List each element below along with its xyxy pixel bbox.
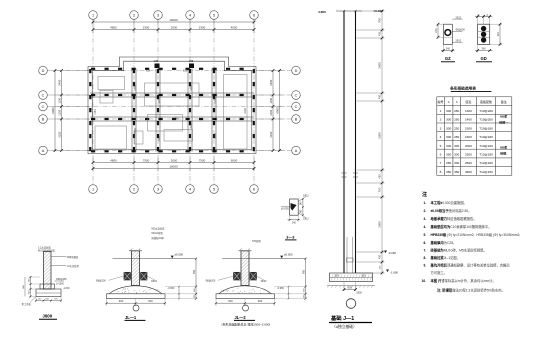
svg-text:7500: 7500: [199, 158, 206, 162]
svg-text:1150: 1150: [269, 97, 273, 103]
svg-text:2: 2: [133, 188, 135, 192]
svg-text:2300: 2300: [143, 25, 150, 29]
svg-text:2Φ12: 2Φ12: [303, 217, 309, 220]
svg-text:基础拉梁JL-1见图。: 基础拉梁JL-1见图。: [430, 255, 461, 260]
svg-text:5: 5: [213, 14, 215, 18]
svg-text:1740: 1740: [173, 118, 179, 121]
svg-text:HPB235级 (Φ) fy=210N/mm2; HRB3: HPB235级 (Φ) fy=210N/mm2; HRB335级 (Φ) fy=…: [431, 232, 521, 237]
svg-text:3600: 3600: [377, 132, 381, 139]
svg-text:底板配筋: 底板配筋: [480, 99, 492, 104]
svg-text:4800: 4800: [110, 25, 117, 29]
svg-text:3Φ12: 3Φ12: [261, 280, 268, 283]
svg-text:3: 3: [440, 126, 442, 130]
svg-text:8.: 8.: [424, 256, 427, 260]
svg-text:1.: 1.: [424, 201, 427, 205]
svg-text:625: 625: [146, 70, 151, 73]
svg-text:2Φ12: 2Φ12: [303, 194, 309, 197]
svg-text:2300: 2300: [134, 128, 137, 134]
svg-text:1Φ5: 1Φ5: [189, 60, 194, 63]
svg-text:GD: GD: [480, 56, 486, 61]
svg-text:编号: 编号: [438, 99, 444, 104]
svg-text:2500: 2500: [465, 161, 472, 165]
svg-text:条形基础选用表: 条形基础选用表: [450, 86, 476, 91]
svg-text:-1.800: -1.800: [390, 270, 398, 274]
svg-text:2400: 2400: [269, 79, 273, 85]
svg-text:7: 7: [440, 161, 442, 165]
svg-text:1: 1: [92, 188, 94, 192]
svg-text:3: 3: [157, 188, 159, 192]
svg-text:6: 6: [253, 14, 255, 18]
svg-text:700: 700: [377, 187, 381, 192]
svg-text:防潮层20厚: 防潮层20厚: [152, 236, 165, 240]
svg-text:300: 300: [446, 109, 451, 113]
svg-text:240: 240: [482, 47, 487, 50]
svg-text:T10@200: T10@200: [479, 118, 493, 122]
svg-text:本图 尺寸除标高以m计外，其余均以mm计。: 本图 尺寸除标高以m计外，其余均以mm计。: [430, 278, 496, 283]
svg-text:350: 350: [446, 161, 451, 165]
svg-text:3600: 3600: [465, 170, 472, 174]
svg-text:450: 450: [378, 254, 381, 259]
svg-text:3Φ12: 3Φ12: [151, 280, 158, 283]
svg-text:砖基础为MU10砖，M5水泥砂浆砌筑。: 砖基础为MU10砖，M5水泥砂浆砌筑。: [430, 248, 487, 253]
svg-text:-0.950: -0.950: [277, 287, 284, 290]
svg-text:240: 240: [435, 28, 438, 33]
svg-text:350: 350: [446, 152, 451, 156]
svg-text:1250: 1250: [269, 109, 273, 115]
svg-text:950: 950: [302, 269, 305, 274]
svg-text:基础砜均为C25。: 基础砜均为C25。: [430, 240, 457, 245]
svg-text:A: A: [295, 149, 298, 153]
svg-text:T10@200: T10@200: [479, 109, 493, 113]
svg-text:（d独立基础）: （d独立基础）: [332, 324, 357, 329]
svg-text:370砖墙: 370砖墙: [252, 239, 261, 243]
svg-text:B: B: [295, 118, 298, 122]
svg-text:300: 300: [446, 118, 451, 122]
svg-text:900: 900: [119, 299, 124, 303]
svg-text:900: 900: [228, 299, 233, 303]
svg-text:J600: J600: [42, 314, 52, 319]
svg-text:4: 4: [189, 188, 191, 192]
svg-text:900: 900: [148, 299, 153, 303]
svg-text:±0.000: ±0.000: [175, 252, 184, 256]
svg-text:250: 250: [454, 126, 459, 130]
svg-text:Φ8@200: Φ8@200: [96, 280, 106, 283]
svg-text:T10@180: T10@180: [479, 126, 493, 130]
svg-text:2: 2: [133, 14, 135, 18]
svg-text:350: 350: [446, 170, 451, 174]
svg-text:地基承载力特征值取勘察报告。: 地基承载力特征值取勘察报告。: [431, 216, 477, 221]
svg-text:砖砌—: 砖砌—: [499, 120, 508, 125]
svg-text:7.: 7.: [424, 249, 427, 253]
svg-text:1400: 1400: [465, 118, 472, 122]
svg-text:1600: 1600: [465, 135, 472, 139]
svg-text:2.: 2.: [424, 209, 427, 213]
svg-text:D: D: [295, 69, 298, 73]
svg-text:2300: 2300: [134, 85, 137, 91]
svg-text:T10@180: T10@180: [479, 135, 493, 139]
svg-text:3: 3: [157, 14, 159, 18]
svg-text:300: 300: [454, 144, 459, 148]
svg-text:底宽: 底宽: [465, 99, 471, 104]
svg-text:300: 300: [446, 135, 451, 139]
svg-text:(条形基础配筋见表 埋深2000~2.600): (条形基础配筋见表 埋深2000~2.600): [222, 321, 271, 326]
svg-text:-1.800: -1.800: [63, 288, 70, 290]
svg-text:A: A: [42, 149, 45, 153]
svg-text:2400: 2400: [190, 123, 193, 129]
svg-text:2Φ12: 2Φ12: [456, 40, 462, 43]
svg-text:3—3: 3—3: [286, 235, 294, 239]
svg-text:M5浆: M5浆: [500, 114, 507, 119]
svg-text:4800: 4800: [110, 158, 117, 162]
svg-text:5: 5: [213, 188, 215, 192]
svg-text:250: 250: [454, 109, 459, 113]
svg-text:200: 200: [361, 275, 366, 278]
svg-text:9.: 9.: [424, 264, 427, 268]
svg-text:L=1000: L=1000: [56, 284, 64, 286]
svg-text:4: 4: [189, 14, 191, 18]
svg-text:6: 6: [440, 152, 442, 156]
svg-text:D: D: [42, 69, 45, 73]
svg-text:Φ6@200: Φ6@200: [456, 29, 466, 32]
svg-text:2400: 2400: [244, 108, 247, 114]
svg-text:3600: 3600: [377, 62, 381, 69]
svg-text:6000: 6000: [231, 158, 238, 162]
svg-text:16000: 16000: [169, 165, 178, 169]
svg-text:2000: 2000: [171, 25, 178, 29]
svg-text:8000: 8000: [275, 107, 279, 114]
svg-text:3Φ6@250: 3Φ6@250: [56, 278, 67, 281]
svg-text:4: 4: [440, 135, 442, 139]
svg-text:注: 注: [422, 191, 427, 198]
svg-text:JL—1: JL—1: [125, 315, 137, 320]
svg-text:300: 300: [446, 144, 451, 148]
svg-text:3.: 3.: [424, 217, 427, 221]
svg-text:1500: 1500: [465, 126, 472, 130]
svg-text:300: 300: [446, 126, 451, 130]
svg-text:3150: 3150: [269, 131, 273, 137]
svg-text:-0.060: -0.060: [388, 251, 396, 255]
svg-text:2400: 2400: [190, 85, 193, 91]
svg-text:2Φ12: 2Φ12: [456, 16, 462, 19]
svg-text:1800: 1800: [158, 98, 161, 104]
svg-text:注: 防潮层做法20厚1:2水泥砂浆掺5%防水剂。: 注: 防潮层做法20厚1:2水泥砂浆掺5%防水剂。: [437, 288, 505, 293]
svg-text:500: 500: [348, 287, 353, 290]
svg-text:6.: 6.: [424, 241, 427, 245]
svg-text:1500: 1500: [158, 136, 161, 142]
svg-text:700: 700: [377, 18, 381, 23]
svg-text:JL—2: JL—2: [235, 315, 247, 320]
svg-text:16000: 16000: [169, 18, 178, 22]
svg-text:T12@150: T12@150: [479, 170, 493, 174]
svg-text:-0.950: -0.950: [168, 287, 175, 290]
svg-text:8000: 8000: [51, 107, 55, 114]
svg-text:C: C: [42, 94, 45, 98]
svg-text:±0.000: ±0.000: [281, 207, 289, 210]
svg-text:Φ8@200: Φ8@200: [206, 280, 216, 283]
svg-text:900: 900: [258, 299, 263, 303]
svg-text:5.: 5.: [424, 233, 427, 237]
svg-text:基础 J—1: 基础 J—1: [330, 314, 354, 322]
svg-text:8: 8: [440, 170, 442, 174]
svg-text:240: 240: [497, 32, 500, 37]
svg-text:300: 300: [454, 161, 459, 165]
svg-text:4.: 4.: [424, 225, 427, 229]
svg-text:625: 625: [183, 70, 188, 73]
svg-text:B: B: [42, 118, 45, 122]
svg-text:T12@160: T12@160: [479, 161, 493, 165]
svg-text:3000: 3000: [171, 158, 178, 162]
svg-text:5: 5: [440, 144, 442, 148]
svg-text:1150: 1150: [94, 109, 97, 115]
svg-text:备注: 备注: [501, 99, 507, 104]
svg-text:本工程±0.000见建施图。: 本工程±0.000见建施图。: [430, 200, 467, 205]
svg-text:950: 950: [193, 269, 196, 274]
svg-text:250: 250: [454, 135, 459, 139]
svg-text:方可施工。: 方可施工。: [431, 270, 447, 275]
svg-text:1: 1: [92, 14, 94, 18]
svg-text:7500: 7500: [143, 158, 150, 162]
svg-text:2300: 2300: [465, 152, 472, 156]
svg-text:3600: 3600: [377, 221, 381, 228]
svg-text:6: 6: [253, 188, 255, 192]
svg-text:300: 300: [454, 152, 459, 156]
svg-text:1: 1: [440, 109, 442, 113]
svg-text:砖砌.: 砖砌.: [500, 151, 507, 156]
svg-text:C: C: [295, 105, 298, 109]
svg-text:250: 250: [454, 118, 459, 122]
svg-text:350: 350: [454, 170, 459, 174]
svg-text:2100: 2100: [214, 98, 217, 104]
svg-text:T10@160: T10@160: [479, 144, 493, 148]
svg-text:450: 450: [378, 94, 381, 99]
svg-text:200: 200: [334, 275, 339, 278]
svg-text:基础垫层均为C10素砜厚100随捣随抹平。: 基础垫层均为C10素砜厚100随捣随抹平。: [430, 224, 492, 229]
svg-text:4.800: 4.800: [318, 10, 326, 14]
svg-text:2400: 2400: [214, 133, 217, 139]
svg-text:10.: 10.: [422, 279, 427, 283]
svg-text:C: C: [42, 105, 45, 109]
svg-text:MU10砖墙: MU10砖墙: [152, 231, 164, 235]
svg-text:1800: 1800: [356, 292, 362, 295]
svg-text:C: C: [295, 94, 298, 98]
svg-text:2400: 2400: [57, 79, 61, 85]
svg-text:4600: 4600: [231, 25, 238, 29]
svg-text:2Φ5: 2Φ5: [154, 60, 159, 63]
svg-text:±0.000: ±0.000: [284, 252, 293, 256]
svg-text:T12@180: T12@180: [479, 152, 493, 156]
svg-text:3150: 3150: [57, 131, 61, 137]
svg-text:M5水泥砂浆: M5水泥砂浆: [152, 227, 165, 231]
svg-text:GZ: GZ: [445, 56, 451, 61]
svg-text:240: 240: [446, 47, 451, 50]
svg-text:1150: 1150: [57, 97, 61, 103]
svg-text:基坑开挖后须通知勘察、设计等有关单位验槽，合格后: 基坑开挖后须通知勘察、设计等有关单位验槽，合格后: [430, 263, 511, 268]
svg-text:450: 450: [378, 174, 381, 179]
svg-text:2000: 2000: [465, 144, 472, 148]
svg-text:M5浆: M5浆: [500, 145, 507, 150]
svg-text:1300: 1300: [465, 109, 472, 113]
svg-text:±0.00相当于绝对标高2.50。: ±0.00相当于绝对标高2.50。: [431, 208, 472, 213]
svg-text:450: 450: [378, 31, 381, 36]
svg-text:1250: 1250: [57, 109, 61, 115]
svg-text:2: 2: [440, 118, 442, 122]
svg-text:2300: 2300: [199, 25, 206, 29]
